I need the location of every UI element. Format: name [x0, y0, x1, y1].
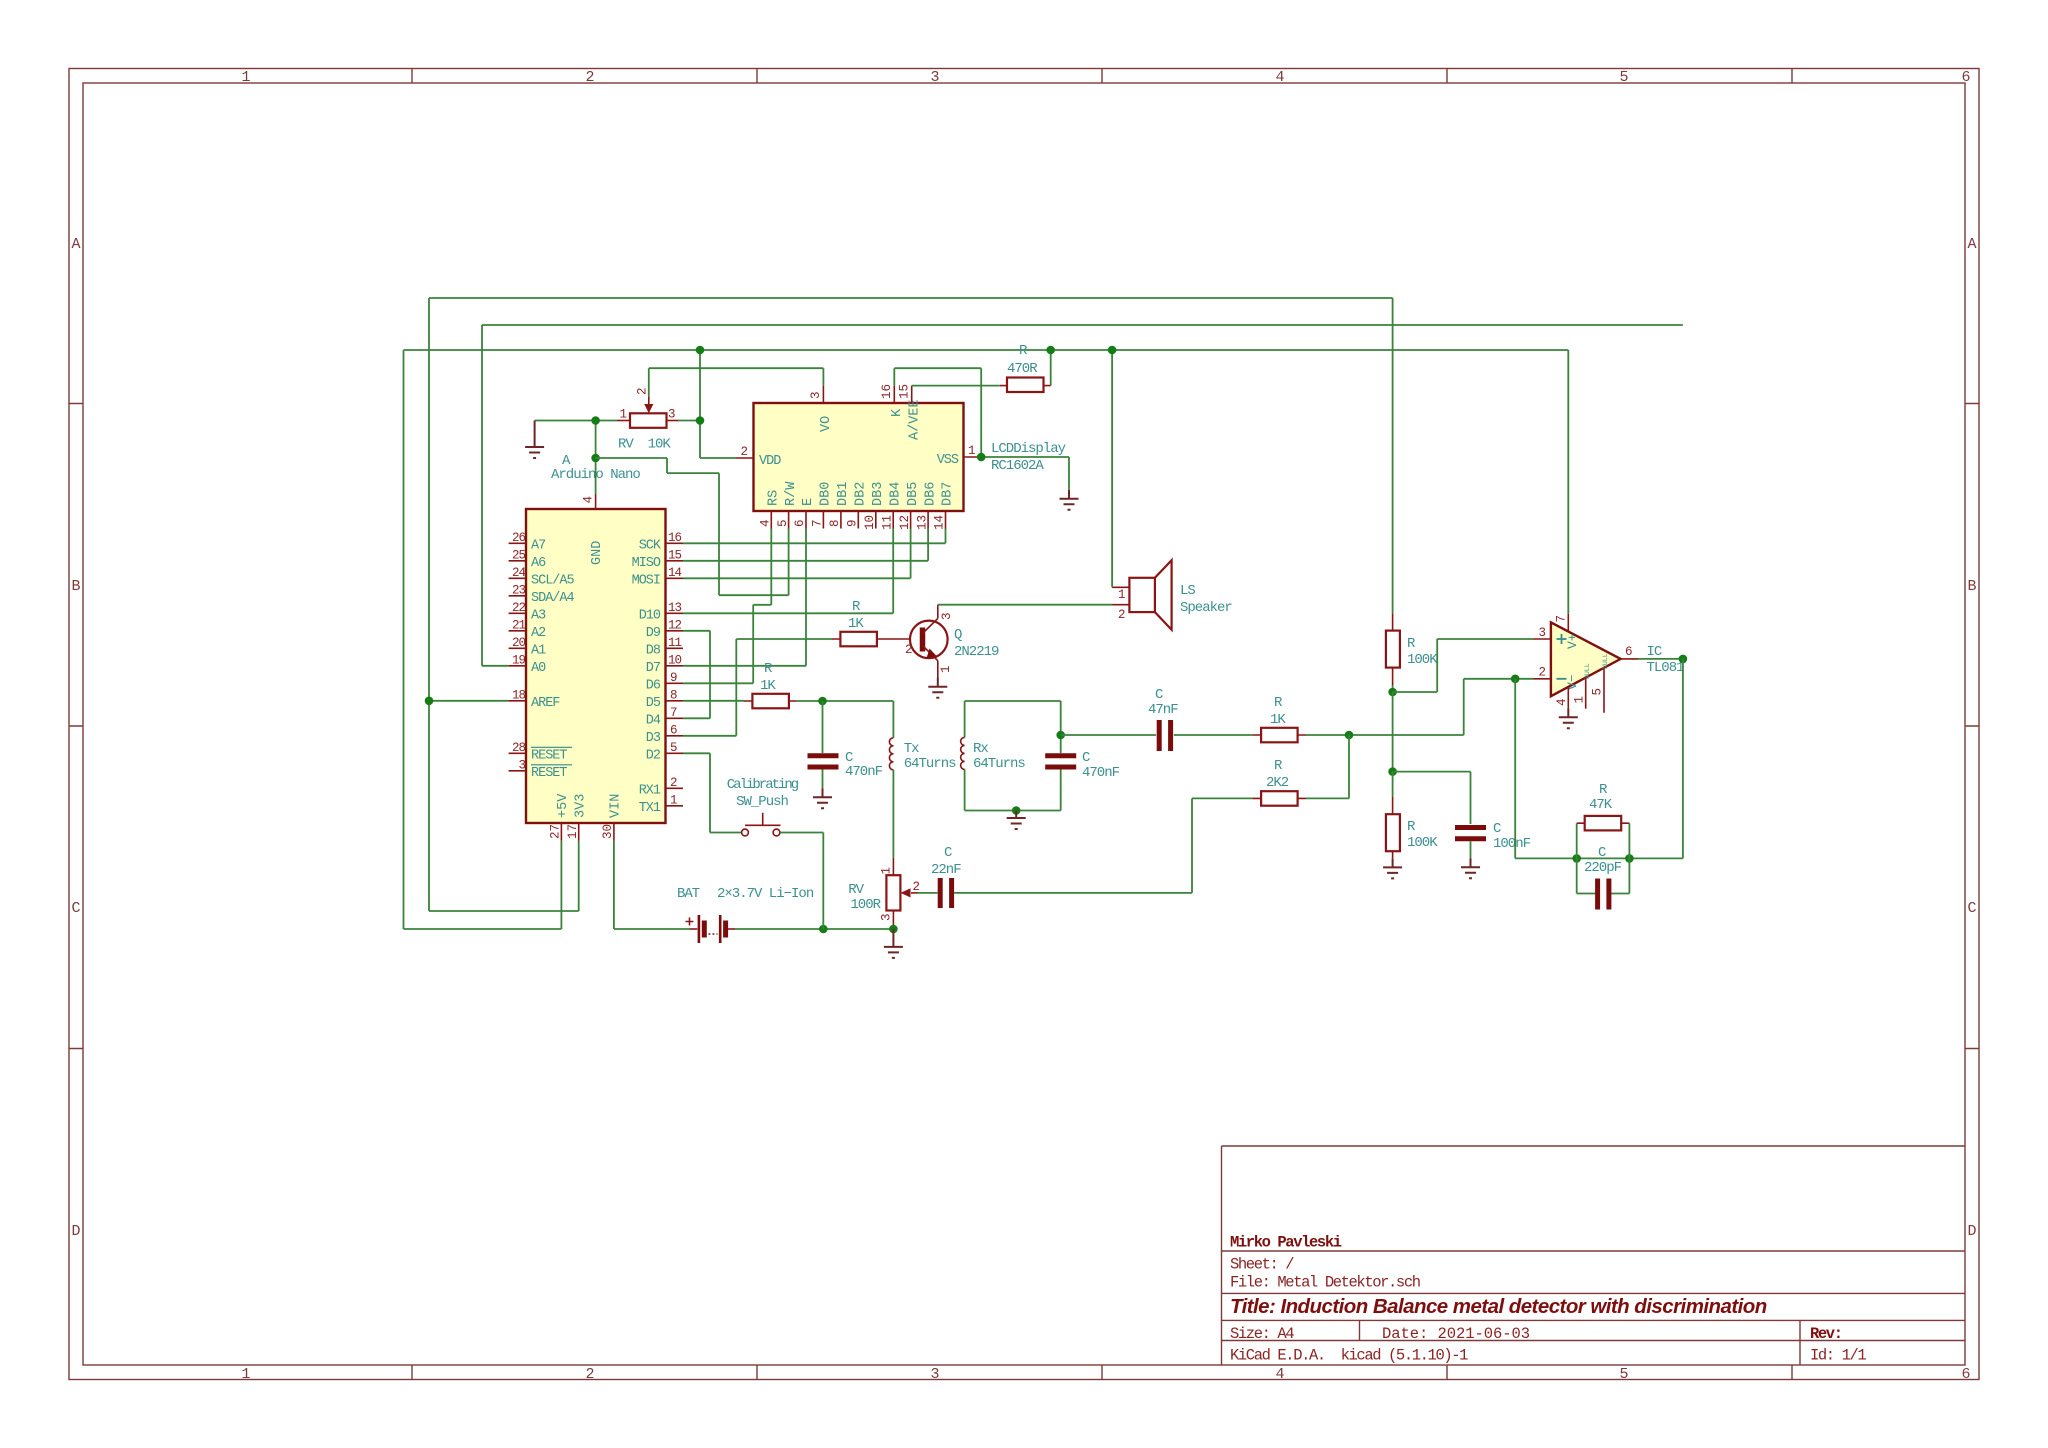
svg-text:D: D: [71, 1223, 80, 1240]
svg-text:2×3.7V Li−Ion: 2×3.7V Li−Ion: [717, 886, 814, 902]
junction +5V rail x700: [696, 346, 705, 355]
svg-text:16: 16: [880, 384, 894, 399]
wire 3V3 to pin17: [429, 841, 579, 911]
op-amp pin2 stub: [1534, 678, 1551, 680]
svg-text:C: C: [1598, 845, 1606, 861]
svg-text:7: 7: [811, 519, 825, 527]
svg-text:D: D: [1967, 1223, 1976, 1240]
svg-text:3: 3: [940, 612, 954, 620]
battery left pin: [690, 928, 697, 930]
capacitor C 220pF: [1584, 845, 1622, 910]
svg-text:Mirko Pavleski: Mirko Pavleski: [1230, 1234, 1342, 1252]
svg-text:D10: D10: [639, 608, 661, 623]
resistor R 47K body: [1585, 782, 1622, 830]
svg-text:3: 3: [518, 758, 525, 772]
op-amp pin4 V- stub: [1567, 687, 1569, 708]
svg-text:6: 6: [793, 519, 807, 527]
svg-text:23: 23: [512, 583, 526, 597]
svg-text:DB3: DB3: [871, 482, 886, 506]
ground at transistor emitter: [928, 678, 947, 698]
frame row ticks left: [69, 404, 83, 1049]
frame row labels right: [1967, 236, 1976, 1240]
svg-text:C: C: [1155, 687, 1163, 703]
svg-text:File: Metal Detektor.sch: File: Metal Detektor.sch: [1230, 1274, 1420, 1292]
svg-text:3: 3: [930, 1366, 939, 1383]
wire divider mid down: [1392, 692, 1394, 772]
svg-text:15: 15: [668, 548, 682, 562]
junction battery-switch: [819, 925, 828, 934]
svg-text:RX1: RX1: [639, 783, 661, 798]
wire D2 to switch: [683, 753, 742, 832]
svg-text:16: 16: [668, 531, 682, 545]
wire SCK to DB7: [683, 529, 946, 544]
svg-text:2: 2: [905, 643, 913, 657]
svg-text:D7: D7: [646, 661, 661, 676]
svg-text:DB5: DB5: [906, 482, 921, 506]
wire Rx loop: [965, 701, 1061, 811]
inductor Tx coil: [889, 738, 956, 772]
frame row ticks right: [1965, 404, 1979, 1049]
svg-text:5: 5: [776, 519, 790, 527]
svg-text:KiCad E.D.A. kicad (5.1.10)-1: KiCad E.D.A. kicad (5.1.10)-1: [1230, 1347, 1468, 1365]
resistor R 2K2 body: [1261, 758, 1298, 806]
svg-text:V−: V−: [1565, 674, 1580, 690]
wire divider mid to opamp pin3: [1393, 639, 1534, 692]
wire Rx junction to C47nF: [1061, 734, 1156, 736]
wire battery to junctions: [735, 928, 893, 930]
svg-text:1: 1: [619, 408, 627, 422]
svg-text:A: A: [1967, 236, 1976, 253]
ground at VSS: [1060, 490, 1079, 510]
transistor Q circle: [910, 621, 948, 659]
transistor emitter arrow: [927, 649, 937, 659]
svg-text:VSS: VSS: [937, 453, 959, 468]
arduino left pin names: [531, 538, 575, 781]
svg-text:19: 19: [512, 653, 526, 667]
ground at pot pin1: [525, 421, 544, 459]
svg-text:1K: 1K: [848, 616, 864, 632]
svg-text:5: 5: [1619, 1366, 1628, 1383]
wire switch right to battery junction: [780, 833, 823, 930]
svg-text:RC1602A: RC1602A: [991, 458, 1044, 474]
junction battery-RV: [889, 925, 898, 934]
svg-text:5: 5: [1619, 69, 1628, 86]
RV 100R pin stubs: [892, 858, 894, 929]
junction Rx top: [1056, 731, 1065, 740]
svg-text:A6: A6: [531, 556, 546, 571]
svg-text:10: 10: [668, 653, 682, 667]
svg-text:2: 2: [585, 1366, 594, 1383]
svg-text:1: 1: [670, 793, 677, 807]
svg-text:+5V: +5V: [556, 793, 571, 818]
wire RS to D6: [683, 529, 771, 684]
frame column labels top: [241, 69, 1970, 86]
svg-text:Size: A4: Size: A4: [1230, 1325, 1294, 1343]
svg-text:9: 9: [846, 519, 860, 527]
svg-text:Rx: Rx: [973, 741, 988, 757]
svg-text:1: 1: [1573, 696, 1587, 704]
svg-text:2: 2: [740, 445, 748, 459]
wire A0 rail: [482, 325, 1683, 666]
op-amp pin6 output stub: [1621, 658, 1638, 660]
wire 470R right to +5V rail: [1050, 350, 1052, 386]
op-amp minus sign: [1557, 678, 1567, 680]
svg-text:TX1: TX1: [639, 801, 661, 816]
RV10K pin3 stub: [667, 420, 679, 422]
transistor base bar: [920, 628, 926, 652]
svg-text:RESET: RESET: [531, 748, 567, 763]
svg-text:SCL/A5: SCL/A5: [531, 573, 575, 588]
svg-text:RV 10K: RV 10K: [618, 437, 671, 453]
ground at C100nF: [1461, 858, 1480, 878]
junction feedback right: [1625, 854, 1634, 863]
svg-text:2K2: 2K2: [1266, 775, 1289, 791]
svg-text:1: 1: [241, 1366, 250, 1383]
wire R100K to junction: [1392, 685, 1394, 692]
svg-text:12: 12: [668, 618, 682, 632]
svg-text:2: 2: [913, 880, 921, 894]
R47K pin stubs: [1577, 822, 1630, 824]
junction C100nF tap: [1388, 767, 1397, 776]
svg-text:30: 30: [601, 824, 615, 839]
op-amp plus sign: [1557, 634, 1567, 644]
R1K base pin stubs: [832, 638, 910, 640]
arduino bottom pin stubs: [561, 823, 614, 841]
svg-text:SW_Push: SW_Push: [736, 794, 788, 810]
wire tap to C100nF: [1393, 772, 1471, 824]
wire pot wiper to VO: [649, 368, 824, 396]
wire +5V rail to op-amp pin7: [1567, 350, 1569, 614]
junction R1K/R2K2: [1345, 731, 1354, 740]
svg-text:AREF: AREF: [531, 696, 560, 711]
svg-text:RS: RS: [767, 490, 782, 506]
svg-text:RV: RV: [848, 882, 864, 898]
svg-text:6: 6: [1961, 69, 1970, 86]
wire opamp pin2 from R1K node: [1464, 679, 1534, 735]
arduino right pin stubs: [666, 543, 684, 806]
wire pot pin1 to gnd and GND junction column: [535, 421, 617, 494]
svg-text:D2: D2: [646, 748, 661, 763]
svg-text:1: 1: [880, 867, 894, 875]
svg-text:K: K: [890, 408, 905, 417]
svg-text:D3: D3: [646, 731, 661, 746]
svg-text:SCK: SCK: [639, 538, 662, 553]
junction pot pin3: [696, 416, 705, 425]
resistor R 1K base body: [840, 599, 877, 646]
svg-text:NULL: NULL: [1602, 653, 1609, 669]
battery plus sign: [686, 918, 694, 926]
svg-text:8: 8: [670, 688, 677, 702]
svg-text:1: 1: [939, 665, 953, 673]
resistor R 470R body: [1007, 343, 1044, 392]
svg-text:TL081: TL081: [1647, 660, 1685, 676]
frame column ticks top: [412, 69, 1792, 84]
svg-text:8: 8: [828, 519, 842, 527]
LCD bottom pin names: [767, 481, 956, 506]
frame column labels bottom: [241, 1366, 1970, 1383]
arduino bottom pin names: [556, 793, 624, 818]
arduino bottom pin numbers: [549, 824, 616, 839]
svg-text:27: 27: [549, 824, 563, 839]
svg-text:A0: A0: [531, 661, 546, 676]
svg-text:2: 2: [636, 387, 650, 395]
svg-text:D5: D5: [646, 696, 661, 711]
svg-text:64Turns: 64Turns: [973, 756, 1025, 772]
svg-text:10: 10: [863, 515, 877, 530]
svg-text:A2: A2: [531, 626, 546, 641]
op-amp pin7 V+ stub: [1567, 614, 1569, 632]
svg-text:Calibrating: Calibrating: [727, 777, 799, 793]
svg-text:6: 6: [1625, 645, 1633, 659]
RV10K wiper arrow pin2: [636, 387, 654, 413]
resistor R 1K (signal) body: [1261, 695, 1298, 742]
LCD pin K stub: [893, 386, 895, 403]
capacitor C 470nF (Tx): [808, 701, 883, 788]
470R pin stubs: [1000, 385, 1051, 387]
svg-text:C: C: [1082, 750, 1090, 766]
svg-text:3: 3: [880, 913, 894, 921]
svg-text:DB0: DB0: [819, 482, 834, 506]
wire 3V3 rail to R100K: [1392, 298, 1394, 613]
ground at Rx loop: [1007, 811, 1026, 830]
junction Rx bottom: [1012, 806, 1021, 815]
svg-text:DB2: DB2: [854, 482, 869, 506]
svg-text:VIN: VIN: [609, 794, 624, 818]
svg-text:1K: 1K: [1270, 712, 1286, 728]
svg-text:Rev:: Rev:: [1810, 1325, 1842, 1343]
svg-text:VDD: VDD: [759, 454, 781, 469]
svg-text:18: 18: [512, 688, 526, 702]
svg-text:C: C: [944, 845, 952, 861]
op-amp pin3 stub: [1534, 638, 1551, 640]
battery dots: [709, 933, 718, 935]
wire D9 to D4: [683, 631, 710, 719]
svg-text:D6: D6: [646, 678, 661, 693]
svg-text:470nF: 470nF: [1082, 765, 1120, 781]
inductor Rx coil: [961, 737, 1026, 772]
svg-text:A/VEE: A/VEE: [908, 399, 923, 440]
svg-text:11: 11: [668, 636, 682, 650]
wire op-amp output: [1638, 658, 1683, 660]
svg-text:VO: VO: [819, 416, 834, 432]
arduino right pin numbers: [668, 531, 682, 808]
speaker pin stubs: [1112, 587, 1129, 604]
battery plates cell1: [698, 915, 701, 943]
svg-text:7: 7: [1555, 615, 1569, 623]
junction VSS: [977, 453, 986, 462]
wire MISO to DB6: [683, 529, 928, 561]
svg-text:3V3: 3V3: [573, 794, 588, 818]
svg-text:Q: Q: [954, 627, 962, 643]
svg-text:IC: IC: [1647, 644, 1662, 660]
svg-text:4: 4: [759, 519, 773, 527]
svg-text:20: 20: [512, 636, 526, 650]
svg-text:2N2219: 2N2219: [954, 644, 999, 660]
wire Tx coil to RV100R: [892, 770, 894, 858]
svg-text:1: 1: [1118, 588, 1126, 602]
op-amp pin5 null stub: [1603, 668, 1605, 713]
speaker cone: [1155, 560, 1172, 630]
wire VIN pin30 to battery: [614, 841, 690, 929]
switch lever: [745, 813, 781, 826]
R100K upper pin stubs: [1392, 613, 1394, 685]
svg-text:4: 4: [1275, 69, 1284, 86]
RV10K pin1 stub: [617, 420, 630, 422]
switch circles: [742, 829, 749, 836]
R1K (D5) pin stubs: [744, 700, 797, 702]
svg-text:DB4: DB4: [888, 482, 903, 506]
svg-text:2: 2: [1118, 608, 1126, 622]
transistor emitter diagonal: [923, 646, 938, 678]
svg-text:3: 3: [930, 69, 939, 86]
svg-text:DB1: DB1: [836, 482, 851, 506]
battery plates cell2: [719, 915, 722, 943]
svg-text:Tx: Tx: [904, 741, 919, 757]
LCD RC1602A body: [754, 403, 1066, 511]
svg-text:DB7: DB7: [941, 482, 956, 506]
wire D5 to R1K: [683, 700, 744, 702]
svg-text:5: 5: [1591, 688, 1605, 696]
svg-text:R/W: R/W: [784, 481, 799, 506]
wire 3V3 rail top: [429, 298, 1393, 911]
svg-text:12: 12: [898, 515, 912, 530]
svg-text:9: 9: [670, 671, 677, 685]
capacitor C 100nF: [1455, 821, 1531, 858]
wire C47nF to R1K: [1174, 734, 1253, 736]
svg-text:470nF: 470nF: [845, 764, 883, 780]
LCD pin VDD stub: [736, 457, 754, 459]
junction speaker rail: [1108, 346, 1117, 355]
LCD bottom pin stubs: [771, 511, 945, 529]
svg-text:2: 2: [670, 776, 677, 790]
svg-text:RESET: RESET: [531, 766, 567, 781]
svg-text:11: 11: [880, 515, 894, 530]
LCD pin VO stub: [822, 386, 824, 403]
arduino left pin numbers: [512, 531, 526, 773]
svg-text:100nF: 100nF: [1493, 836, 1531, 852]
wire R1K out junction: [1306, 734, 1464, 736]
arduino right pin names: [632, 538, 662, 816]
wire +5V pin27: [560, 841, 562, 929]
svg-text:C: C: [1967, 900, 1976, 917]
wire A/VEE to 470R: [894, 368, 1000, 457]
svg-text:28: 28: [512, 741, 526, 755]
wire R2K2 right up to junction: [1306, 735, 1349, 798]
R1K signal pin stubs: [1253, 734, 1306, 736]
svg-text:3: 3: [809, 391, 823, 399]
svg-text:SDA/A4: SDA/A4: [531, 591, 575, 606]
svg-text:26: 26: [512, 531, 526, 545]
svg-text:7: 7: [670, 706, 677, 720]
svg-text:2: 2: [585, 69, 594, 86]
LCD pin VSS stub: [964, 456, 982, 458]
svg-text:100K: 100K: [1407, 652, 1438, 668]
op-amp pin1 null stub: [1585, 678, 1587, 709]
svg-text:LCDDisplay: LCDDisplay: [991, 441, 1066, 457]
svg-text:Id: 1/1: Id: 1/1: [1810, 1347, 1866, 1365]
svg-text:100R: 100R: [850, 897, 881, 913]
wire output down to feedback rail: [1682, 659, 1684, 859]
ground at op-amp pin4: [1559, 708, 1578, 728]
svg-text:22: 22: [512, 601, 526, 615]
wire R47K verticals: [1577, 823, 1630, 893]
svg-text:1: 1: [241, 69, 250, 86]
wire tap down to R100K lower: [1392, 772, 1394, 797]
junction GND column: [591, 454, 600, 463]
junction 470R at rail: [1046, 346, 1055, 355]
junction output: [1679, 655, 1688, 664]
svg-text:C: C: [1493, 821, 1501, 837]
svg-text:14: 14: [668, 566, 682, 580]
svg-text:1: 1: [968, 444, 976, 458]
svg-text:A7: A7: [531, 538, 546, 553]
junction pot pin1: [591, 416, 600, 425]
C 22nF plates: [940, 878, 951, 908]
svg-text:E: E: [801, 498, 816, 506]
svg-text:BAT: BAT: [677, 886, 700, 902]
RV 100R wiper arrow: [911, 892, 918, 894]
svg-text:4: 4: [1275, 1366, 1284, 1383]
svg-text:13: 13: [915, 515, 929, 530]
svg-text:MISO: MISO: [632, 556, 661, 571]
op-amp triangle: [1551, 622, 1621, 696]
svg-text:5: 5: [670, 741, 677, 755]
svg-text:LS: LS: [1180, 583, 1195, 599]
ground at R100K lower: [1383, 858, 1402, 878]
svg-text:B: B: [1967, 578, 1976, 595]
wire pot pin3 to +5V rail and VDD: [679, 350, 736, 458]
wire D3 to R1K base resistor: [683, 639, 832, 736]
svg-text:D9: D9: [646, 626, 661, 641]
svg-text:Title: Induction Balance metal: Title: Induction Balance metal detector …: [1230, 1295, 1767, 1318]
frame column ticks bottom: [412, 1365, 1792, 1380]
svg-text:25: 25: [512, 548, 526, 562]
svg-text:470R: 470R: [1007, 361, 1038, 377]
svg-text:64Turns: 64Turns: [904, 756, 956, 772]
ground at C470nF (Tx): [813, 788, 832, 808]
svg-text:17: 17: [566, 824, 580, 839]
svg-text:220pF: 220pF: [1584, 860, 1622, 876]
svg-text:D8: D8: [646, 643, 661, 658]
capacitor C 47nF: [1148, 687, 1178, 751]
frame row labels left: [71, 236, 80, 1240]
battery right pin: [728, 928, 735, 930]
svg-text:4: 4: [1555, 698, 1569, 706]
svg-text:C: C: [71, 900, 80, 917]
svg-text:21: 21: [512, 618, 526, 632]
svg-text:A3: A3: [531, 608, 546, 623]
R100K lower pin stubs: [1392, 797, 1394, 859]
svg-text:D4: D4: [646, 713, 661, 728]
wire speaker pin1 to +5V rail: [1111, 350, 1113, 587]
svg-text:6: 6: [1961, 1366, 1970, 1383]
svg-text:47nF: 47nF: [1148, 702, 1178, 718]
arduino left pin stubs: [509, 543, 526, 771]
svg-text:B: B: [71, 578, 80, 595]
resistor R 100K lower body: [1386, 814, 1438, 851]
arduino top pin GND stub: [595, 494, 597, 509]
svg-text:A1: A1: [531, 643, 546, 658]
svg-text:A: A: [71, 236, 80, 253]
R2K2 pin stubs: [1253, 797, 1306, 799]
svg-text:15: 15: [898, 384, 912, 399]
arduino A body: [526, 453, 666, 823]
ground at battery minus: [884, 929, 903, 958]
svg-text:DB6: DB6: [923, 482, 938, 506]
arduino RESET overlines: [531, 747, 572, 765]
wire collector to speaker: [938, 604, 1112, 606]
svg-text:GND: GND: [590, 541, 605, 565]
